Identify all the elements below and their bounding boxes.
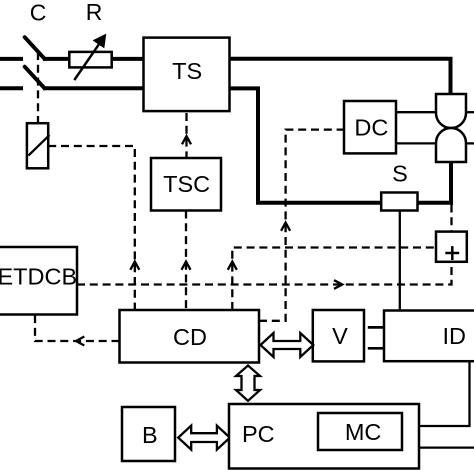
block TSC (151, 158, 221, 211)
contactor C pole 2 blade (25, 67, 45, 89)
dashed control line CD to coil C (48, 146, 135, 310)
arrowhead up on CD-plus line (228, 262, 237, 270)
dashed control line ETDCB to + box (77, 262, 452, 285)
dashed control line TSC to TS (185, 113, 187, 158)
arrowhead left on CD-ETDCB line (76, 337, 84, 346)
arrowhead up on CD-DC line (281, 223, 290, 231)
resistor R1 body (69, 52, 111, 68)
wire DC to top winding (396, 111, 436, 113)
hollow double arrow CD-PC (236, 366, 260, 401)
dashed control line CD to ETDCB (35, 315, 120, 342)
block MC (318, 413, 402, 450)
svg-text:DC: DC (354, 115, 388, 141)
dashed control line CD to + box (232, 248, 436, 311)
block ETDCB (0, 247, 77, 315)
wire phase A left stub (0, 57, 23, 61)
arrowhead up on TSC-TS line (182, 136, 191, 144)
summation block + (436, 232, 467, 262)
bus bar V-ID lower (368, 347, 385, 350)
thick wire TS to machine top (230, 59, 451, 94)
block PC (229, 404, 419, 469)
svg-text:TS: TS (172, 58, 202, 84)
svg-text:V: V (332, 323, 348, 349)
svg-text:MC: MC (345, 419, 382, 445)
svg-text:PC: PC (242, 421, 275, 447)
wire PC right stub (419, 446, 474, 448)
electromagnet top winding (436, 94, 466, 128)
block DC (344, 101, 396, 153)
wire resistor to TS (112, 57, 144, 61)
wire S to ID (399, 211, 401, 311)
electromagnet bottom winding (436, 128, 466, 162)
variable resistor arrow shaft (74, 36, 104, 80)
block TS (144, 38, 230, 112)
sensor S body (381, 193, 417, 211)
contactor C pole 1 blade (25, 37, 45, 59)
wire phase B left stub (0, 86, 23, 90)
block B (122, 407, 175, 461)
dashed line junction to + box top (450, 205, 452, 232)
contactor C coil diagonal (28, 135, 49, 156)
dashed control line CD to TSC (185, 211, 187, 311)
arrowhead up on CD-TSC line (182, 262, 191, 270)
svg-text:C: C (30, 0, 47, 26)
svg-text:ETDCB: ETDCB (0, 263, 77, 289)
svg-text:TSC: TSC (163, 171, 210, 197)
variable resistor arrowhead (93, 34, 107, 49)
contactor C mechanical link (dashed) (37, 52, 39, 123)
svg-text:S: S (392, 161, 408, 187)
bus bar V-ID upper (368, 326, 385, 329)
block ID (384, 311, 474, 362)
hollow double arrow B-PC (178, 426, 230, 450)
wire top winding right stub (466, 111, 474, 113)
svg-text:B: B (142, 422, 158, 448)
arrowhead up on CD-coil line (130, 262, 139, 270)
arrowhead right on ETDCB-plus line (334, 280, 342, 289)
block CD (120, 310, 260, 363)
thick wire TS right down to S sensor (230, 88, 382, 202)
thick wire machine bottom to junction (449, 161, 453, 203)
plus sign (445, 252, 459, 255)
contactor C coil (27, 123, 48, 168)
dashed control line CD to DC (259, 130, 344, 321)
hollow double arrow CD-V (261, 333, 314, 357)
svg-text:ID: ID (442, 323, 466, 349)
svg-text:R: R (86, 0, 103, 25)
wire bottom winding right stub (466, 142, 474, 144)
wire blade to TS (43, 86, 144, 90)
wire DC to bottom winding (396, 142, 436, 144)
wire blade to resistor (43, 57, 69, 61)
block V (313, 310, 364, 361)
svg-text:CD: CD (173, 324, 207, 350)
thick wire S to junction (418, 201, 454, 205)
wire ID to PC (419, 361, 470, 426)
